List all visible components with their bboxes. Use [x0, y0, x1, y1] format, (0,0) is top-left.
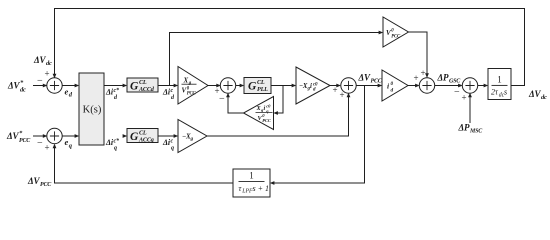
arrowhead into S6 bottom — [468, 93, 472, 98]
svg-text:ΔV: ΔV — [27, 176, 40, 186]
arrowhead into triangle Vpcc0 — [379, 31, 384, 35]
svg-text:ACCd: ACCd — [138, 86, 155, 93]
svg-text:dc: dc — [541, 94, 547, 101]
block G_ACCq — [127, 129, 158, 143]
svg-text:PCC: PCC — [187, 92, 197, 97]
arrowhead into triangle id0 — [378, 84, 383, 88]
wire: S3 to G_PLL — [236, 85, 244, 87]
svg-text:MSC: MSC — [469, 129, 483, 135]
wire: G_PLL to triangle -Xg id0 — [271, 85, 295, 87]
arrowhead into S4 bottom — [347, 93, 351, 98]
block G_ACCd — [127, 78, 158, 92]
wire: input dV*pcc into S2 — [33, 135, 46, 137]
svg-text:PCC: PCC — [391, 34, 401, 39]
wire: feedback triangle output to bottom of S3 — [228, 94, 244, 113]
svg-text:Δi: Δi — [105, 88, 114, 97]
wire: triangle -Xg output up into bottom of S4 — [207, 94, 349, 136]
label di_d^c — [162, 88, 175, 101]
arrowhead into G_ACCq — [123, 134, 128, 138]
svg-text:i: i — [310, 83, 312, 90]
svg-text:ΔP: ΔP — [437, 73, 449, 83]
wire: input dV*dc into S1 — [33, 85, 46, 87]
wire: dP_MSC stub into bottom of S6 — [469, 94, 471, 123]
svg-text:PCC: PCC — [19, 138, 31, 144]
arrowhead into G_PLL — [240, 84, 245, 88]
triangle gain -Xg — [178, 120, 207, 153]
text G_PLL^CL — [248, 79, 268, 93]
block K(s) — [79, 73, 104, 145]
label dV*pcc (input) — [6, 130, 31, 144]
sum S3 (PLL input) — [220, 78, 235, 93]
svg-text:ΔV: ΔV — [33, 55, 46, 65]
svg-text:1: 1 — [497, 75, 502, 85]
svg-text:q: q — [114, 146, 117, 152]
arrowhead into triangle -Xg id0 — [292, 84, 297, 88]
wire: dVpcc tap down to LPF block — [271, 86, 365, 184]
label di_q^c — [162, 138, 174, 151]
text 1/(tau_LPF s + 1) fraction — [239, 171, 270, 195]
svg-text:−: − — [37, 138, 43, 149]
svg-text:d: d — [114, 95, 118, 101]
label di_d^c* — [105, 87, 120, 101]
arrowhead into S1 top — [53, 74, 57, 79]
arrowhead into S3 bottom — [226, 93, 230, 98]
wire: branch down into feedback triangle Xg iq0/Vpcc0 — [275, 86, 283, 114]
wire: triangle Xg/Vpcc0 to sum S3 — [208, 85, 220, 87]
svg-text:LPF: LPF — [241, 189, 253, 195]
wire: S4 to triangle id0 (dVpcc) — [356, 85, 381, 87]
svg-text:+: + — [421, 68, 426, 78]
sum S6 (dc power balance) — [462, 78, 477, 93]
wire: LPF output to bottom of S2 — [55, 145, 234, 183]
wire: S6 to 1/(2tau s) block — [478, 85, 488, 87]
svg-text:q: q — [171, 146, 174, 152]
text K(s) — [83, 105, 102, 116]
arrowhead into G_ACCd — [123, 84, 128, 88]
label e_d — [65, 87, 73, 99]
text Xg iq_c0/Vpcc0 in feedback triangle T4 — [256, 104, 273, 123]
text G_ACCq^CL — [130, 130, 154, 144]
wire: K(s) to G_ACCd — [104, 85, 126, 87]
triangle gain -Xg id_c0 — [296, 67, 330, 104]
arrowhead into S5 top — [425, 73, 429, 78]
arrowhead into K(s) lower — [75, 134, 80, 138]
arrowhead into LPF block (points left) — [270, 181, 275, 185]
wire: triangle Vpcc0 output down into top of S5 — [409, 32, 428, 77]
svg-text:d: d — [171, 95, 175, 101]
svg-text:PCC: PCC — [40, 182, 52, 188]
svg-text:X: X — [183, 76, 189, 84]
svg-text:PLL: PLL — [257, 86, 268, 93]
text -Xg id_c0 in triangle T3 — [299, 83, 318, 93]
svg-text:c: c — [171, 139, 174, 145]
sum S2 (e_q) — [47, 128, 62, 143]
wire: G_ACCd to triangle Xg/Vpcc0 — [158, 85, 177, 87]
svg-text:dc: dc — [46, 60, 52, 67]
text id0 in triangle T5 — [387, 81, 394, 94]
label dVpcc (after S4) — [358, 72, 383, 84]
svg-text:1: 1 — [249, 171, 254, 181]
svg-text:G: G — [130, 131, 139, 143]
svg-text:Δi: Δi — [162, 138, 171, 147]
svg-text:CL: CL — [257, 79, 265, 86]
sum S1 (e_d) — [47, 78, 62, 93]
label dP_MSC — [458, 123, 484, 135]
svg-text:dc: dc — [20, 87, 26, 94]
arrowhead into triangle Xg/Vpcc0 — [174, 84, 179, 88]
wire: S1 to K(s) — [62, 85, 78, 87]
arrowhead into S2 bottom — [53, 144, 57, 149]
svg-text:−: − — [37, 76, 43, 87]
svg-text:q: q — [69, 143, 73, 150]
triangle gain id0 — [382, 70, 408, 101]
arrowhead into S5 left — [415, 84, 420, 88]
wire: dc-loop from 1/(2tau s) output right, up, across top, down into sum S1 — [55, 9, 525, 86]
wire: triangle id0 to sum S5 — [408, 85, 419, 87]
arrowhead into S2 left — [43, 134, 48, 138]
wire: S5 to S6 (dP_GSC) — [435, 85, 462, 87]
svg-text:G: G — [248, 81, 257, 93]
svg-text:+: + — [414, 73, 419, 83]
svg-text:GSC: GSC — [449, 79, 461, 85]
svg-text:+: + — [340, 90, 345, 100]
label dVdc (output right) — [528, 89, 547, 101]
arrowhead into triangle -Xg — [174, 134, 179, 138]
label dV*dc (input) — [7, 80, 26, 94]
arrowhead into S4 left — [336, 84, 341, 88]
text G_ACCd^CL — [130, 79, 155, 93]
triangle gain Xg/Vpcc0 — [178, 67, 208, 105]
wire: G_ACCq to triangle -Xg — [158, 135, 177, 137]
svg-text:2τ: 2τ — [491, 88, 499, 97]
label e_q — [65, 137, 73, 150]
svg-text:Δi: Δi — [162, 88, 171, 97]
svg-text:+: + — [462, 93, 467, 103]
svg-text:+: + — [45, 143, 50, 153]
triangle gain Vpcc0 — [383, 17, 409, 47]
sum S4 (dVpcc) — [341, 78, 356, 93]
svg-text:d: d — [69, 92, 73, 99]
svg-text:G: G — [130, 81, 139, 93]
svg-text:−: − — [454, 87, 460, 98]
svg-text:s: s — [504, 88, 507, 97]
svg-text:ΔV: ΔV — [7, 81, 20, 91]
svg-text:ΔV: ΔV — [358, 72, 371, 82]
svg-text:c: c — [171, 88, 174, 94]
text Xg/Vpcc0 in triangle T1 — [182, 76, 197, 96]
svg-text:c*: c* — [114, 138, 120, 145]
label dVpcc (bottom feedback) — [27, 176, 52, 188]
svg-text:ΔV: ΔV — [6, 131, 19, 141]
wire: S2 to K(s) — [62, 135, 78, 137]
arrowhead into S6 left — [458, 84, 463, 88]
svg-text:K(s): K(s) — [83, 105, 102, 116]
svg-text:*: * — [19, 130, 23, 137]
triangle gain Xg iq_c0 / Vpcc0 (left pointing) — [244, 97, 274, 130]
text Vpcc0 in triangle T6 — [386, 29, 401, 40]
svg-text:−: − — [219, 93, 225, 104]
text -Xg in triangle T2 — [182, 133, 194, 143]
block 1/(tau_LPF s + 1) — [233, 169, 270, 197]
sum S5 (dP_GSC) — [419, 78, 434, 93]
label dP_GSC — [437, 73, 462, 85]
arrowhead into K(s) upper — [75, 84, 80, 88]
svg-text:PCC: PCC — [262, 118, 271, 123]
block G_PLL — [244, 78, 271, 94]
svg-text:s + 1: s + 1 — [253, 184, 270, 193]
svg-text:+: + — [45, 69, 50, 79]
svg-text:c*: c* — [114, 87, 120, 94]
svg-text:ΔP: ΔP — [458, 123, 470, 133]
svg-text:ΔV: ΔV — [528, 89, 541, 99]
wire: triangle -Xg id0 to sum S4 — [330, 85, 340, 87]
label di_q^c* — [105, 138, 120, 152]
svg-text:CL: CL — [139, 79, 147, 86]
text 1/(2 tau_dc s) fraction — [491, 75, 508, 99]
svg-text:ACCq: ACCq — [138, 137, 154, 144]
arrowhead into S1 left — [43, 84, 48, 88]
label dVdc (top left) — [33, 55, 52, 67]
svg-text:CL: CL — [139, 130, 147, 137]
svg-text:Δi: Δi — [105, 138, 114, 147]
arrowhead into feedback triangle (points left) — [273, 111, 278, 115]
svg-text:+: + — [333, 85, 338, 95]
wire: branch up to Vpcc0 triangle rail — [170, 33, 383, 86]
block 1/(2 tau_dc s) — [488, 69, 511, 100]
arrowhead into S3 left — [216, 84, 221, 88]
arrowhead into 1/(2tau s) block — [484, 84, 489, 88]
svg-text:g: g — [190, 136, 194, 142]
svg-text:PCC: PCC — [371, 78, 383, 84]
svg-text:*: * — [20, 80, 24, 87]
